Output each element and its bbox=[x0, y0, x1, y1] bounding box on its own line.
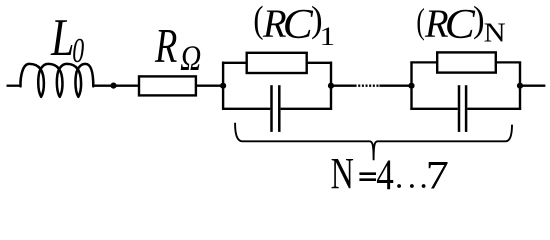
RC cell 1: capacitor C1 bbox=[272, 85, 280, 132]
svg-text:(: ( bbox=[416, 0, 424, 41]
resistor R_Omega bbox=[139, 76, 196, 95]
svg-text:0: 0 bbox=[72, 32, 84, 70]
RC cell 1: node dot right bbox=[328, 83, 334, 89]
wire left lead bbox=[7, 85, 21, 87]
label (RC)1 bbox=[253, 0, 335, 51]
RC cell N: capacitor CN bbox=[459, 85, 466, 132]
wire into cell 2 bbox=[379, 85, 412, 87]
wire resistor to cell 1 bbox=[197, 85, 223, 87]
wire right lead bbox=[520, 85, 545, 87]
svg-text:1: 1 bbox=[320, 22, 336, 51]
RC cell 1: right vertical wire bbox=[330, 62, 332, 110]
RC cell N: bottom branch wire bbox=[410, 108, 521, 110]
svg-text:C: C bbox=[283, 2, 314, 48]
wire cell1 to cell2 bbox=[331, 85, 357, 87]
wire from inductor to resistor bbox=[93, 85, 138, 87]
label R_Omega bbox=[154, 20, 201, 78]
RC cell 1: node dot left bbox=[220, 83, 226, 89]
node dot between L0 and R bbox=[110, 83, 116, 89]
svg-text:N: N bbox=[484, 18, 506, 48]
brace N=4...7 bbox=[235, 123, 512, 161]
label L0 bbox=[50, 9, 84, 71]
RC cell 1: bottom branch wire bbox=[222, 108, 332, 110]
RC cell N: node dot left bbox=[408, 83, 414, 89]
svg-text:4: 4 bbox=[376, 151, 394, 198]
svg-text:C: C bbox=[445, 2, 476, 48]
RC cell N: node dot right bbox=[517, 83, 523, 89]
RC cell 1: top branch wire bbox=[222, 62, 332, 64]
RC cell 1: left vertical wire bbox=[222, 62, 224, 110]
svg-text:Ω: Ω bbox=[180, 39, 201, 78]
RC cell N: left vertical wire bbox=[410, 62, 412, 110]
RC cell N: resistor RN bbox=[437, 52, 496, 72]
svg-text:7: 7 bbox=[426, 153, 449, 197]
label N=4...7 bbox=[331, 149, 449, 199]
label (RC)N bbox=[416, 0, 505, 48]
inductor L0 bbox=[20, 64, 93, 97]
svg-text:L: L bbox=[50, 9, 74, 68]
RC cell N: right vertical wire bbox=[519, 62, 521, 110]
RC cell N: top branch wire bbox=[410, 61, 521, 63]
dotted wire segment bbox=[358, 84, 378, 86]
svg-text:R: R bbox=[154, 20, 177, 73]
svg-text:N: N bbox=[331, 149, 354, 198]
RC cell 1: resistor R1 bbox=[247, 53, 307, 73]
